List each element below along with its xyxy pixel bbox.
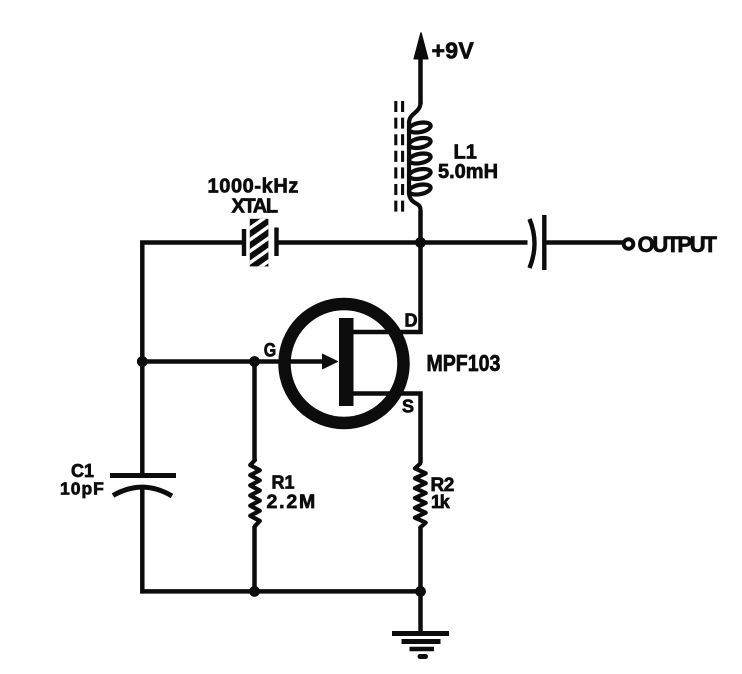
svg-text:MPF103: MPF103 <box>427 351 501 377</box>
svg-text:S: S <box>402 397 414 417</box>
svg-text:10pF: 10pF <box>60 479 105 499</box>
svg-text:5.0mH: 5.0mH <box>438 161 498 183</box>
svg-text:XTAL: XTAL <box>232 196 278 218</box>
svg-text:D: D <box>405 311 418 331</box>
svg-text:+9V: +9V <box>432 38 475 64</box>
svg-text:1000-kHz: 1000-kHz <box>208 176 300 198</box>
svg-text:G: G <box>264 339 276 361</box>
svg-text:R1: R1 <box>272 473 295 493</box>
svg-text:1k: 1k <box>431 492 451 512</box>
svg-text:OUTPUT: OUTPUT <box>638 232 718 257</box>
svg-text:2.2M: 2.2M <box>267 491 318 513</box>
